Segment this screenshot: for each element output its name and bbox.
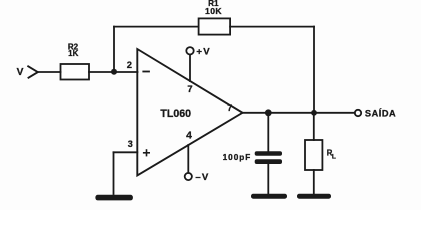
svg-text:L: L — [332, 153, 336, 160]
svg-text:V: V — [17, 67, 24, 78]
svg-text:7: 7 — [187, 83, 192, 94]
svg-text:3: 3 — [128, 139, 133, 149]
svg-text:1K: 1K — [68, 49, 78, 58]
svg-text:TL060: TL060 — [160, 108, 191, 120]
svg-text:7: 7 — [227, 103, 232, 113]
svg-text:SAÍDA: SAÍDA — [365, 108, 396, 119]
svg-text:+V: +V — [196, 46, 210, 57]
svg-text:10K: 10K — [205, 6, 222, 16]
svg-text:4: 4 — [186, 131, 192, 142]
svg-text:100pF: 100pF — [223, 153, 252, 162]
svg-text:–V: –V — [195, 172, 209, 183]
svg-text:2: 2 — [127, 59, 132, 70]
